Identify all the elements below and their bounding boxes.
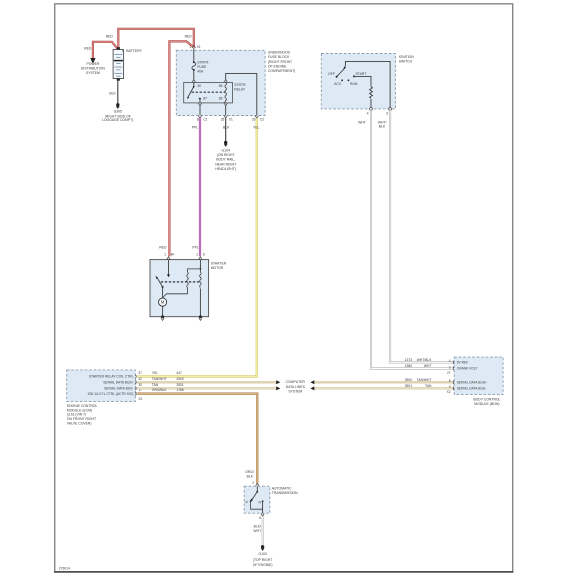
pin X1 (fuse block battery input) (189, 45, 201, 49)
starter hold-in winding (199, 269, 201, 272)
svg-text:PPL: PPL (192, 246, 199, 250)
wire TAN/WHT serial data bus + (arrow to BCM 8) (314, 381, 454, 383)
svg-text:42: 42 (138, 377, 142, 381)
svg-text:6: 6 (259, 516, 261, 520)
starter case ground right (199, 315, 202, 320)
svg-text:OF ENGINE): OF ENGINE) (253, 563, 273, 567)
wire TAN serial data bus - (ECM to arrow) (137, 387, 276, 389)
svg-text:30: 30 (138, 383, 142, 387)
svg-text:ORG/BLK: ORG/BLK (152, 388, 167, 392)
svg-text:9: 9 (449, 385, 451, 389)
svg-text:30: 30 (197, 84, 201, 88)
svg-text:G305: G305 (114, 109, 122, 113)
transmission pin 6 (259, 514, 264, 520)
svg-text:UNDERHOOD: UNDERHOOD (268, 51, 291, 55)
svg-text:B+: B+ (171, 253, 175, 257)
starter case ground left (161, 315, 164, 320)
svg-text:SERIAL DATA BUS+: SERIAL DATA BUS+ (457, 381, 487, 385)
svg-text:4: 4 (449, 359, 451, 363)
svg-text:STRTR: STRTR (234, 83, 246, 87)
frame border (54, 4, 513, 572)
pin 26 C2 (YEL exit) (252, 116, 264, 122)
svg-text:G104: G104 (222, 148, 230, 152)
svg-text:START: START (355, 72, 366, 76)
automatic transmission box (244, 486, 298, 513)
svg-text:35: 35 (221, 117, 225, 121)
svg-text:(TOP RIGHT: (TOP RIGHT (253, 558, 272, 562)
svg-text:FUSE BLOCK: FUSE BLOCK (268, 55, 290, 59)
wire RED branch to power distribution arrow (93, 42, 118, 58)
svg-text:1: 1 (196, 253, 198, 257)
arrow right (bus+) (276, 380, 280, 384)
ignition switch box (321, 54, 414, 109)
svg-text:G103: G103 (258, 552, 266, 556)
svg-text:6: 6 (386, 111, 388, 115)
svg-text:ORG/: ORG/ (245, 470, 254, 474)
svg-text:RED: RED (159, 246, 167, 250)
svg-text:VALVE COVER): VALVE COVER) (67, 422, 92, 426)
label TAN/WHT 2500 (left) (152, 377, 184, 381)
svg-text:87: 87 (203, 96, 207, 100)
ECM pin 42 (135, 377, 142, 384)
relay pin 87 (198, 96, 207, 105)
svg-text:1380: 1380 (405, 364, 413, 368)
BCM pin 2 (449, 365, 454, 370)
svg-text:BODY CONTROL: BODY CONTROL (473, 398, 500, 402)
relay pin 85 (219, 96, 228, 105)
svg-text:TAN: TAN (425, 384, 432, 388)
svg-text:ENGINE CONTROL: ENGINE CONTROL (67, 404, 98, 408)
svg-text:BATTERY: BATTERY (126, 49, 142, 53)
label TAN 2501 (left) (152, 383, 184, 387)
svg-text:YEL: YEL (253, 126, 260, 130)
wire BLK battery to G305 (117, 81, 119, 104)
svg-text:1: 1 (189, 45, 191, 49)
wire RED battery feed to fuse block (118, 29, 194, 48)
svg-text:MOTOR: MOTOR (211, 266, 224, 270)
ECM pin 37 (135, 371, 142, 378)
wire internal: relay 87 to PPL exit (199, 106, 201, 116)
label ORG/BLK (at transmission) (245, 470, 254, 479)
wire RED to starter motor B terminal (169, 41, 192, 256)
svg-text:1373: 1373 (405, 358, 413, 362)
starter pin S (196, 253, 205, 260)
BCM pin 9 (449, 385, 454, 390)
svg-text:37: 37 (138, 371, 142, 375)
park/neutral switch (246, 486, 264, 513)
svg-text:5V REF: 5V REF (457, 361, 469, 365)
svg-text:BLK: BLK (109, 91, 116, 95)
arrow right (bus-) (276, 386, 280, 390)
svg-text:RED: RED (185, 35, 193, 39)
svg-text:STARTER: STARTER (211, 262, 227, 266)
wire BLK fuse block to G104 (225, 118, 227, 141)
svg-text:X2: X2 (447, 390, 451, 394)
relay STRTR RELAY box (184, 82, 246, 103)
relay pin 30 (192, 80, 201, 88)
svg-text:2: 2 (449, 365, 451, 369)
label 2501 TAN (right) (405, 384, 432, 388)
node COMPUTER DATA LINES SYSTEM (286, 380, 306, 394)
svg-text:447: 447 (176, 371, 182, 375)
starter mechanical dashed link (161, 281, 201, 283)
svg-text:RED: RED (106, 35, 114, 39)
relay coil winding (225, 82, 227, 103)
ignition start contact wire with resistor (354, 76, 372, 109)
motor M (159, 287, 167, 317)
svg-text:SERIAL DATA BUS-: SERIAL DATA BUS- (457, 387, 486, 391)
svg-text:(RIGHT FRONT: (RIGHT FRONT (268, 60, 292, 64)
svg-text:TAN/WHT: TAN/WHT (152, 377, 167, 381)
svg-text:IGNITION: IGNITION (399, 55, 415, 59)
svg-text:X2: X2 (138, 397, 142, 401)
svg-text:276014: 276014 (59, 567, 70, 571)
svg-text:26: 26 (252, 117, 256, 121)
svg-text:STARTER RELAY COIL CTRL: STARTER RELAY COIL CTRL (89, 375, 134, 379)
label YEL 447 (152, 371, 182, 375)
svg-text:2500: 2500 (405, 378, 413, 382)
svg-text:MODULE (ECM): MODULE (ECM) (67, 408, 92, 412)
transmission pin 2 (252, 481, 259, 486)
svg-text:1: 1 (164, 253, 166, 257)
svg-text:AUTOMATIC: AUTOMATIC (272, 487, 292, 491)
svg-text:WHT: WHT (424, 364, 432, 368)
svg-text:8: 8 (449, 379, 451, 383)
svg-text:(ON RIGHT: (ON RIGHT (217, 153, 235, 157)
svg-text:SERIAL DATA BUS-: SERIAL DATA BUS- (104, 387, 133, 391)
svg-text:C2: C2 (260, 117, 264, 121)
svg-text:86: 86 (219, 84, 223, 88)
label ORG/BLK 1786 (152, 388, 184, 392)
starter solenoid windings feed (188, 260, 202, 272)
pin 8 C2 (PPL exit) (197, 116, 208, 122)
svg-text:DISTRIBUTION: DISTRIBUTION (81, 66, 105, 70)
svg-text:SERIAL DATA BUS+: SERIAL DATA BUS+ (103, 381, 133, 385)
svg-text:COMPUTER: COMPUTER (286, 380, 306, 384)
starter switch arm (156, 276, 164, 288)
relay switch arm (187, 87, 194, 99)
svg-text:85: 85 (219, 96, 223, 100)
svg-text:40A: 40A (197, 69, 204, 73)
svg-text:MODULE (BCM): MODULE (BCM) (474, 402, 499, 406)
svg-text:WHT: WHT (253, 529, 261, 533)
svg-text:BODY RAIL,: BODY RAIL, (216, 158, 235, 162)
ECM box (67, 370, 136, 426)
svg-text:HEADLIGHT): HEADLIGHT) (215, 167, 236, 171)
svg-text:2501: 2501 (176, 383, 184, 387)
svg-text:DATA LINES: DATA LINES (286, 385, 306, 389)
BCM pin 8 (449, 379, 454, 384)
svg-text:RELAY: RELAY (234, 88, 246, 92)
wire TAN/WHT serial data bus + (ECM to arrow) (137, 381, 276, 383)
label BLK/WHT (253, 525, 261, 533)
wire hold-in winding to case ground (199, 288, 201, 316)
ground G305 (102, 103, 133, 122)
wire internal: relay 86 loop to YEL exit (226, 73, 257, 115)
svg-text:ACC: ACC (334, 82, 342, 86)
svg-text:TRANSMISSION: TRANSMISSION (272, 491, 298, 495)
wire internal: relay 85 to BLK exit (225, 106, 227, 116)
svg-text:(3.6L (VIN 7): (3.6L (VIN 7) (67, 413, 86, 417)
svg-text:FUSE: FUSE (197, 65, 207, 69)
svg-text:TAN/WHT: TAN/WHT (417, 378, 432, 382)
wire YEL fuse block to ECM pin 37 (137, 118, 256, 376)
wire winding to motor junction (163, 288, 188, 298)
svg-text:LUGGAGE COMPT): LUGGAGE COMPT) (102, 118, 133, 122)
ignition switch internal wiring (345, 61, 390, 109)
svg-text:S: S (203, 253, 205, 257)
wire ORG/BLK ECM 17 to transmission (137, 394, 257, 484)
svg-text:RED: RED (84, 47, 92, 51)
svg-text:TAN: TAN (152, 383, 159, 387)
underhood fuse block box (176, 50, 295, 115)
terminal 6 (ignition) (386, 108, 391, 116)
svg-text:POWER: POWER (86, 62, 99, 66)
ground G104 (215, 141, 236, 171)
wire WHT/BLK ignition 6 to BCM 4 (390, 110, 454, 362)
label 1380 WHT (405, 364, 432, 368)
wire WHT ignition 4 to BCM 2 (371, 110, 454, 368)
arrow left (bus-) (310, 386, 314, 390)
starter pin B (164, 253, 175, 260)
wire PPL fuse block to starter S (199, 118, 201, 256)
svg-text:1786: 1786 (176, 388, 184, 392)
svg-text:OFF: OFF (328, 72, 335, 76)
svg-text:BLK: BLK (223, 126, 230, 130)
ECM pin 30 (135, 383, 142, 390)
wire BLK/WHT transmission to G103 (262, 516, 264, 545)
label 2500 TAN/WHT (right) (405, 378, 432, 382)
svg-text:WHT: WHT (358, 120, 366, 124)
starter solenoid contact (B drop) (167, 260, 170, 278)
label 1373 WHT/BLK (405, 358, 432, 362)
svg-text:OF ENGINE: OF ENGINE (268, 64, 287, 68)
svg-text:IGN 1A CYL CTRL (ACTR SIG): IGN 1A CYL CTRL (ACTR SIG) (88, 392, 134, 396)
svg-text:ON FRONT RIGHT: ON FRONT RIGHT (67, 417, 96, 421)
ignition switch arm with positions (328, 66, 366, 85)
svg-text:+: + (122, 50, 124, 54)
ECM pin 17 (135, 388, 142, 395)
BCM box (454, 357, 503, 406)
BCM pin 4 (449, 359, 454, 364)
terminal 4 (ignition) (367, 108, 373, 116)
svg-text:X1: X1 (229, 117, 233, 121)
starter motor box (150, 260, 227, 317)
svg-text:2500: 2500 (176, 377, 184, 381)
svg-text:WHT/BLK: WHT/BLK (417, 358, 432, 362)
svg-text:M: M (161, 300, 165, 305)
ground G103 (253, 545, 273, 567)
svg-text:COMPARTMENT): COMPARTMENT) (268, 69, 295, 73)
svg-text:C2: C2 (203, 117, 207, 121)
starter pull-in winding (187, 272, 189, 288)
svg-text:BLK: BLK (247, 475, 254, 479)
svg-text:4: 4 (367, 111, 369, 115)
svg-text:8: 8 (197, 117, 199, 121)
battery B1 (113, 47, 143, 81)
svg-text:27: 27 (447, 371, 451, 375)
svg-text:STRTR: STRTR (197, 60, 209, 64)
pin 35 X1 (BLK exit) (221, 116, 233, 122)
relay pin 86 (219, 80, 228, 88)
arrow left (bus+) (310, 380, 314, 384)
arrow to POWER DISTRIBUTION SYSTEM (90, 58, 95, 64)
svg-text:2501: 2501 (405, 384, 413, 388)
fuse STRTR FUSE 40A (192, 48, 209, 80)
svg-text:CRANK VOLT: CRANK VOLT (457, 367, 478, 371)
svg-text:SWITCH: SWITCH (399, 59, 413, 63)
svg-text:YEL: YEL (152, 371, 158, 375)
svg-text:X1: X1 (197, 45, 201, 49)
svg-text:BLK: BLK (379, 125, 386, 129)
svg-text:NEAR RIGHT: NEAR RIGHT (215, 162, 236, 166)
svg-text:SYSTEM: SYSTEM (86, 71, 100, 75)
svg-text:SYSTEM: SYSTEM (288, 390, 302, 394)
relay mechanical dashed link (192, 91, 226, 93)
svg-text:RUN: RUN (350, 82, 358, 86)
svg-text:2: 2 (252, 481, 254, 485)
svg-text:PPL: PPL (192, 126, 199, 130)
wire TAN serial data bus - (arrow to BCM 9) (314, 387, 454, 389)
